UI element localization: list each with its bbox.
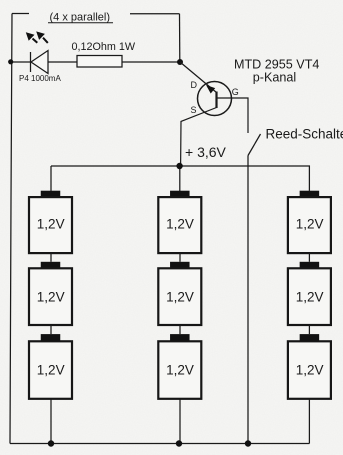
- svg-text:MTD 2955 VT4: MTD 2955 VT4: [234, 58, 319, 72]
- wire switch to bottom bus: [247, 156, 249, 444]
- LED arrow 1: [26, 32, 38, 43]
- wire top right drop to node: [179, 14, 181, 62]
- battery B3 cell 1,2V col1 row3: [29, 334, 72, 399]
- battery B8 cell 1,2V col3 row2: [288, 262, 331, 325]
- svg-text:D: D: [191, 80, 198, 90]
- wire column2 top: [179, 166, 181, 191]
- wire col2 bottom: [179, 399, 181, 444]
- svg-text:1,2V: 1,2V: [37, 363, 65, 378]
- svg-text:+ 3,6V: + 3,6V: [185, 144, 227, 160]
- wire col2 cell2-cell3: [179, 325, 181, 334]
- battery B9 cell 1,2V col3 row3: [288, 334, 331, 399]
- resistor R1 0,12Ohm 1W: [77, 56, 122, 68]
- wire rail to LED cathode: [11, 61, 31, 63]
- wire col2 cell1-cell2: [179, 253, 181, 262]
- svg-text:p-Kanal: p-Kanal: [253, 71, 296, 85]
- node D junction dot (resistor/top wire/drain): [177, 59, 183, 65]
- wire col3 bottom: [308, 399, 310, 444]
- junction dot col2 bottom: [176, 440, 182, 446]
- wire top segment right: [130, 13, 180, 15]
- transistor Q1 arrow: [206, 85, 215, 94]
- wire resistor R1 to node D: [122, 61, 180, 63]
- wire left rail: [10, 14, 12, 444]
- svg-text:1,2V: 1,2V: [37, 217, 65, 232]
- wire col1 cell2-cell3: [50, 325, 52, 334]
- battery B2 cell 1,2V col1 row2: [29, 262, 72, 325]
- svg-text:Reed-Schalter: Reed-Schalter: [266, 127, 343, 142]
- svg-text:1,2V: 1,2V: [296, 217, 324, 232]
- svg-text:1,2V: 1,2V: [296, 363, 324, 378]
- reed switch S1 blade: [248, 134, 261, 156]
- junction dot switch bottom: [245, 440, 251, 446]
- svg-text:1,2V: 1,2V: [296, 289, 324, 304]
- svg-text:P4 1000mA: P4 1000mA: [19, 74, 61, 83]
- svg-text:1,2V: 1,2V: [37, 289, 65, 304]
- svg-text:0,12Ohm 1W: 0,12Ohm 1W: [72, 41, 136, 53]
- svg-text:1,2V: 1,2V: [166, 289, 194, 304]
- node +3,6V junction dot: [176, 163, 182, 169]
- wire LED anode to resistor R1: [48, 61, 77, 63]
- wire col3 cell2-cell3: [308, 325, 310, 334]
- wire top bus +3,6V: [51, 166, 309, 191]
- wire column1 top: [50, 166, 52, 191]
- wire bottom bus: [10, 443, 309, 445]
- svg-text:G: G: [232, 87, 239, 97]
- wire col1 bottom: [50, 399, 52, 444]
- LED D1 P4 1000mA: [31, 51, 49, 74]
- battery B7 cell 1,2V col3 row1: [288, 191, 331, 253]
- svg-text:S: S: [191, 105, 197, 115]
- node A junction dot (rail/LED): [8, 59, 13, 64]
- battery B6 cell 1,2V col2 row3: [158, 334, 201, 399]
- LED arrow 2: [36, 31, 48, 43]
- wire col1 cell1-cell2: [50, 253, 52, 262]
- svg-text:1,2V: 1,2V: [166, 363, 194, 378]
- svg-text:(4 x parallel): (4 x parallel): [50, 12, 111, 24]
- battery B4 cell 1,2V col2 row1: [158, 191, 201, 253]
- wire top segment left: [12, 13, 29, 15]
- battery B5 cell 1,2V col2 row2: [158, 262, 201, 325]
- battery B1 cell 1,2V col1 row1: [29, 191, 72, 253]
- junction dot col1 bottom: [48, 440, 54, 446]
- wire col3 cell1-cell2: [308, 253, 310, 262]
- svg-text:1,2V: 1,2V: [166, 217, 194, 232]
- transistor Q1 MTD 2955 VT4: [180, 62, 248, 166]
